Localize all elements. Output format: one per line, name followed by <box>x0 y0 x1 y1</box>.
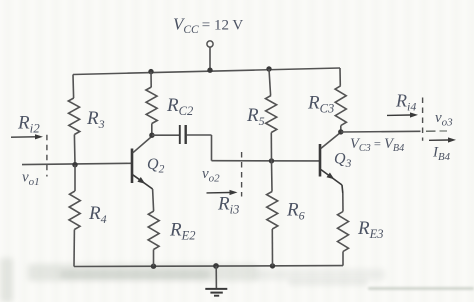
svg-text:VCC = 12 V: VCC = 12 V <box>173 15 243 37</box>
svg-text:RC3: RC3 <box>307 93 334 116</box>
svg-text:Q3: Q3 <box>334 151 352 170</box>
svg-text:RC2: RC2 <box>166 95 193 118</box>
svg-text:Ri2: Ri2 <box>17 113 40 136</box>
svg-text:Q2: Q2 <box>147 156 165 175</box>
svg-text:Ri4: Ri4 <box>395 91 416 114</box>
svg-text:IB4: IB4 <box>432 145 451 163</box>
svg-text:VC3 = VB4: VC3 = VB4 <box>350 136 404 154</box>
svg-text:vo2: vo2 <box>202 166 220 184</box>
svg-text:R5: R5 <box>246 105 265 128</box>
svg-text:vo3: vo3 <box>435 110 453 128</box>
svg-text:R6: R6 <box>286 200 305 223</box>
svg-text:RE2: RE2 <box>169 220 196 243</box>
svg-text:vo1: vo1 <box>22 170 40 188</box>
svg-text:Ri3: Ri3 <box>217 194 239 217</box>
svg-text:RE3: RE3 <box>357 218 384 241</box>
svg-text:R4: R4 <box>88 203 107 226</box>
svg-text:R3: R3 <box>86 108 105 131</box>
